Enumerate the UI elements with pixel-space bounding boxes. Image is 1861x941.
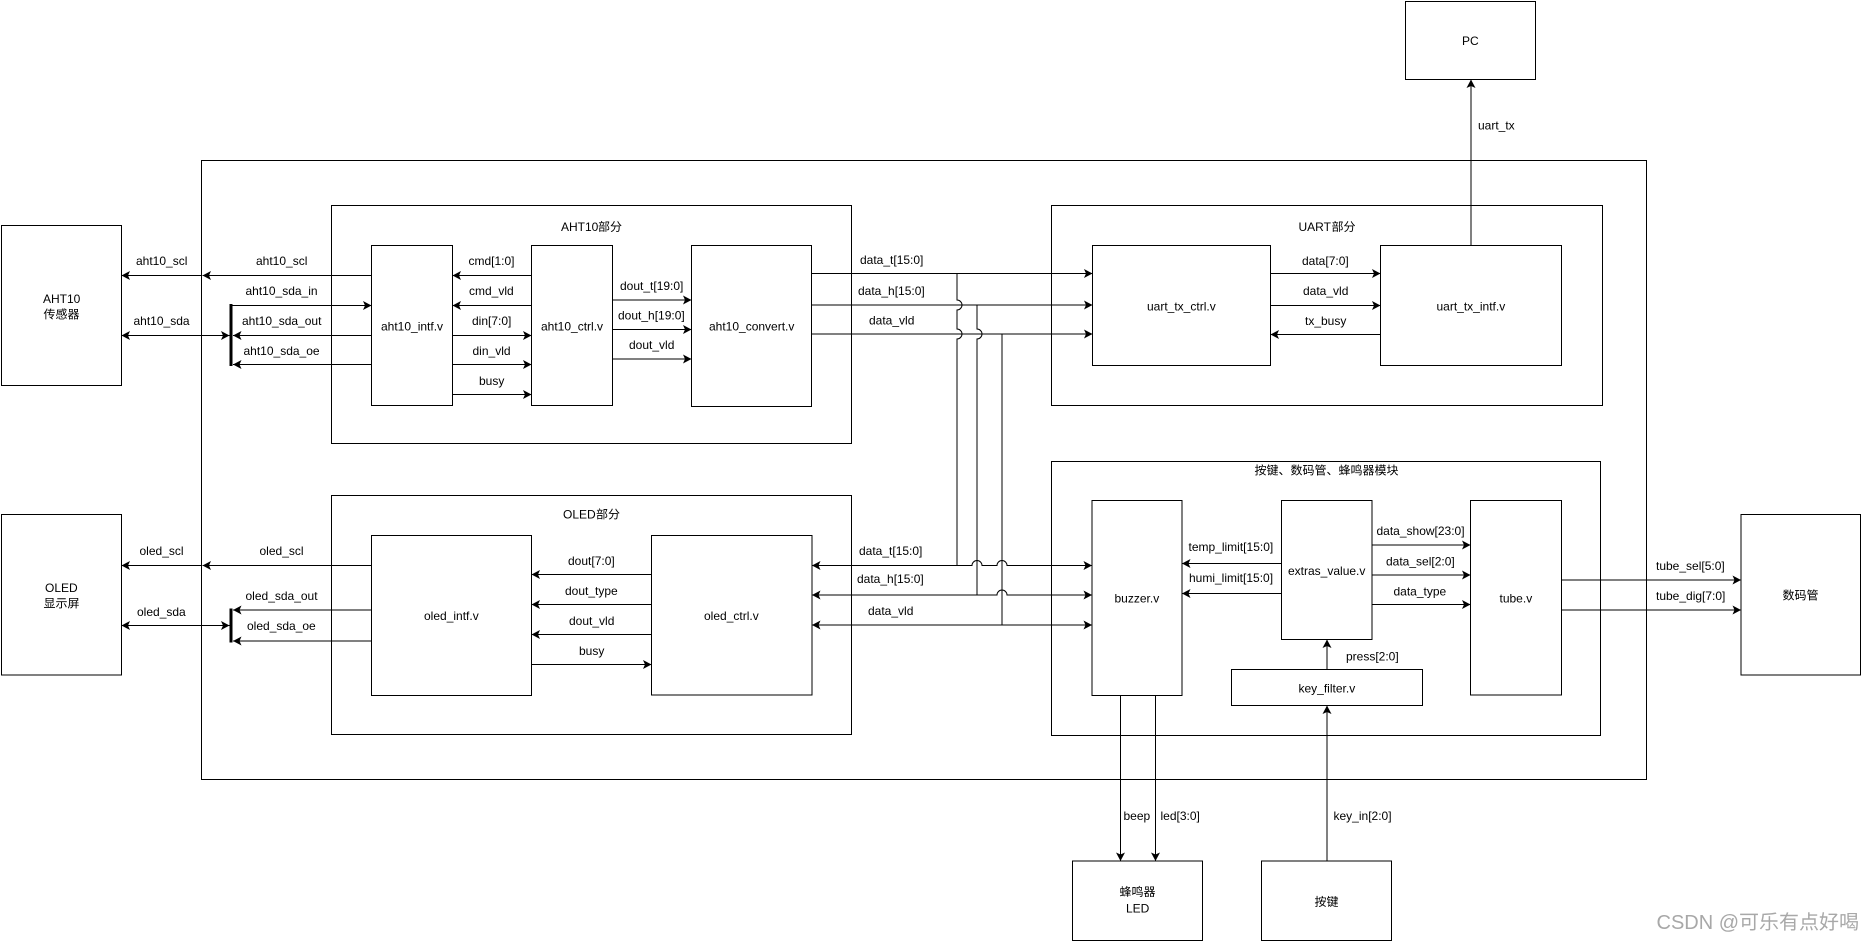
svg-text:aht10_convert.v: aht10_convert.v [709, 320, 794, 334]
svg-text:data_vld: data_vld [869, 314, 914, 328]
wire data_vld branch vertical [1001, 334, 1003, 625]
wire uart_tx [1470, 80, 1472, 246]
svg-text:uart_tx_intf.v: uart_tx_intf.v [1437, 300, 1506, 314]
wire oled_scl (outer segment) [122, 565, 202, 567]
container UART part [1052, 206, 1603, 406]
wire aht10_scl (inner segment) [203, 275, 372, 277]
wire data_t branch vertical [957, 274, 962, 566]
svg-text:aht10_scl: aht10_scl [136, 254, 187, 268]
svg-text:aht10_scl: aht10_scl [256, 254, 307, 268]
svg-text:data_h[15:0]: data_h[15:0] [858, 284, 925, 298]
svg-text:data_type: data_type [1394, 585, 1447, 599]
svg-text:PC: PC [1462, 34, 1479, 48]
module extras_value.v [1282, 501, 1373, 640]
svg-text:temp_limit[15:0]: temp_limit[15:0] [1189, 540, 1274, 554]
svg-text:AHT10: AHT10 [561, 220, 599, 234]
wire oled_sda (bidirectional) [122, 625, 230, 627]
wire data_type [1372, 604, 1471, 606]
wire led[3:0] [1155, 696, 1157, 862]
svg-text:tube.v: tube.v [1500, 592, 1533, 606]
svg-text:dout_t[19:0]: dout_t[19:0] [620, 279, 683, 293]
svg-text:data_show[23:0]: data_show[23:0] [1377, 524, 1465, 538]
svg-text:CSDN @: CSDN @ [1657, 912, 1740, 934]
wire data_show[23:0] [1372, 544, 1471, 546]
svg-text:oled_scl: oled_scl [140, 544, 184, 558]
block PC [1406, 2, 1536, 80]
wire dout_vld (oled) [532, 634, 652, 636]
module uart_tx_ctrl.v [1093, 246, 1271, 366]
wire press[2:0] [1326, 640, 1328, 670]
svg-text:key_filter.v: key_filter.v [1299, 682, 1356, 696]
wire aht10_sda (bidirectional) [122, 335, 230, 337]
block keys [1262, 861, 1392, 941]
svg-text:dout_vld: dout_vld [629, 338, 674, 352]
wire aht10_sda_out [233, 335, 372, 337]
svg-text:data_t[15:0]: data_t[15:0] [859, 544, 922, 558]
wire beep [1120, 696, 1122, 862]
svg-text:aht10_sda_in: aht10_sda_in [246, 284, 318, 298]
svg-text:dout[7:0]: dout[7:0] [568, 554, 615, 568]
wire aht10_sda_oe [233, 364, 372, 366]
svg-text:data_h[15:0]: data_h[15:0] [857, 572, 924, 586]
wire busy (aht10_intf to aht10_ctrl) [453, 394, 532, 396]
wire data_h[15:0] to uart_tx_ctrl [812, 304, 1093, 306]
svg-text:tx_busy: tx_busy [1305, 314, 1346, 328]
block OLED display [2, 515, 122, 676]
svg-text:data_sel[2:0]: data_sel[2:0] [1386, 555, 1455, 569]
svg-text:busy: busy [579, 644, 604, 658]
wire oled_sda_oe [233, 640, 372, 642]
svg-text:oled_ctrl.v: oled_ctrl.v [704, 609, 759, 623]
svg-text:din[7:0]: din[7:0] [472, 314, 511, 328]
svg-text:extras_value.v: extras_value.v [1288, 564, 1365, 578]
wire humi_limit[15:0] [1182, 593, 1282, 595]
module key_filter.v [1232, 670, 1423, 706]
svg-text:data_t[15:0]: data_t[15:0] [860, 253, 923, 267]
wire oled_scl (inner segment) [203, 565, 372, 567]
module oled_intf.v [372, 536, 532, 696]
junction bar oled_sda [230, 609, 233, 643]
wire key_in[2:0] [1326, 706, 1328, 862]
module aht10_ctrl.v [532, 246, 613, 406]
wire dout_h[19:0] [613, 329, 692, 331]
svg-text:tube_dig[7:0]: tube_dig[7:0] [1656, 589, 1725, 603]
svg-text:UART: UART [1299, 220, 1332, 234]
svg-text:aht10_sda: aht10_sda [134, 314, 190, 328]
wire data_h[15:0] to oled_ctrl and buzzer [812, 590, 1092, 595]
wire tube_sel[5:0] [1562, 579, 1742, 581]
wire din[7:0] [453, 335, 532, 337]
module aht10_convert.v [692, 246, 812, 407]
svg-text:oled_sda_out: oled_sda_out [246, 589, 319, 603]
svg-text:oled_sda_oe: oled_sda_oe [247, 619, 316, 633]
svg-text:aht10_intf.v: aht10_intf.v [381, 320, 443, 334]
svg-text:oled_sda: oled_sda [137, 605, 186, 619]
wire dout_vld (aht10) [613, 358, 692, 360]
wire dout_type [532, 604, 652, 606]
wire oled_sda_out [233, 609, 372, 611]
svg-text:AHT10: AHT10 [43, 292, 81, 306]
wire data_t[15:0] to oled_ctrl and buzzer [812, 561, 1092, 566]
svg-text:tube_sel[5:0]: tube_sel[5:0] [1656, 559, 1725, 573]
wire dout_t[19:0] [613, 299, 692, 301]
container OLED part [332, 496, 852, 735]
wire busy (oled_intf to oled_ctrl) [532, 664, 652, 666]
wire dout[7:0] [532, 574, 652, 576]
svg-text:uart_tx: uart_tx [1478, 119, 1515, 133]
svg-text:dout_h[19:0]: dout_h[19:0] [618, 309, 685, 323]
wire aht10_scl (outer segment) [122, 275, 202, 277]
wire tube_dig[7:0] [1562, 609, 1742, 611]
svg-text:cmd[1:0]: cmd[1:0] [469, 254, 515, 268]
svg-text:oled_intf.v: oled_intf.v [424, 609, 479, 623]
svg-text:uart_tx_ctrl.v: uart_tx_ctrl.v [1147, 300, 1216, 314]
block tube display [1741, 515, 1861, 676]
wire data_h branch vertical [977, 305, 982, 595]
svg-text:aht10_sda_oe: aht10_sda_oe [244, 344, 320, 358]
svg-text:LED: LED [1126, 902, 1150, 916]
svg-text:dout_type: dout_type [565, 584, 618, 598]
svg-text:OLED: OLED [563, 508, 596, 522]
wire data_vld to uart_tx_ctrl [812, 333, 1093, 335]
wire data_vld to oled_ctrl and buzzer [812, 624, 1092, 626]
svg-text:buzzer.v: buzzer.v [1115, 592, 1160, 606]
block top-level FPGA container [202, 161, 1647, 780]
module aht10_intf.v [372, 246, 453, 406]
svg-text:busy: busy [479, 374, 504, 388]
wire data_sel[2:0] [1372, 574, 1471, 576]
wire temp_limit[15:0] [1182, 563, 1282, 565]
svg-text:din_vld: din_vld [473, 344, 511, 358]
module tube.v [1471, 501, 1562, 696]
svg-text:humi_limit[15:0]: humi_limit[15:0] [1189, 571, 1273, 585]
wire cmd[1:0] [453, 275, 532, 277]
module buzzer.v [1092, 501, 1182, 696]
svg-text:press[2:0]: press[2:0] [1346, 650, 1399, 664]
svg-text:aht10_ctrl.v: aht10_ctrl.v [541, 320, 603, 334]
svg-text:led[3:0]: led[3:0] [1161, 809, 1200, 823]
block buzzer LED [1073, 861, 1203, 941]
block AHT10 sensor [2, 226, 122, 386]
wire aht10_sda_in [232, 305, 372, 307]
module oled_ctrl.v [652, 536, 813, 696]
svg-text:dout_vld: dout_vld [569, 614, 614, 628]
svg-text:aht10_sda_out: aht10_sda_out [242, 314, 322, 328]
svg-text:OLED: OLED [45, 581, 78, 595]
svg-text:data_vld: data_vld [868, 604, 913, 618]
module uart_tx_intf.v [1381, 246, 1562, 366]
wire data_vld (uart) [1271, 305, 1381, 307]
svg-text:data[7:0]: data[7:0] [1302, 254, 1349, 268]
wire din_vld [453, 364, 532, 366]
svg-text:beep: beep [1124, 809, 1151, 823]
container keys/tube/buzzer module [1052, 462, 1601, 736]
svg-text:data_vld: data_vld [1303, 284, 1348, 298]
svg-text:cmd_vld: cmd_vld [469, 284, 514, 298]
svg-text:oled_scl: oled_scl [260, 544, 304, 558]
container AHT10 part [332, 206, 852, 444]
wire data[7:0] [1271, 273, 1381, 275]
svg-text:key_in[2:0]: key_in[2:0] [1334, 809, 1392, 823]
junction bar aht10_sda [230, 304, 233, 366]
wire tx_busy [1271, 334, 1381, 336]
wire cmd_vld [453, 305, 532, 307]
wire data_t[15:0] to uart_tx_ctrl [812, 273, 1093, 275]
